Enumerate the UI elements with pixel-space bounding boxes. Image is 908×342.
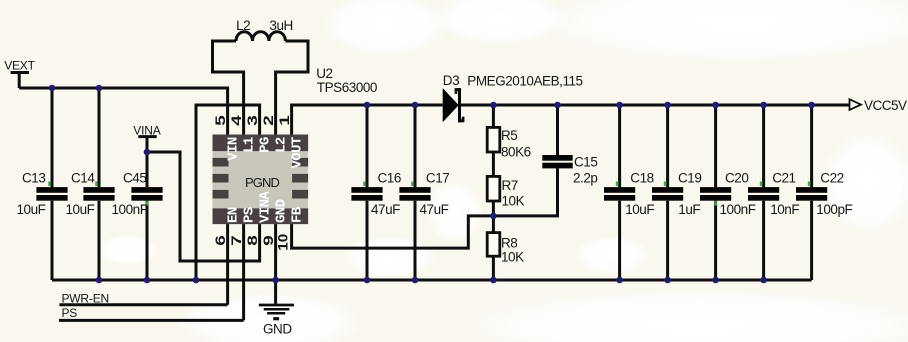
svg-text:1uF: 1uF (678, 202, 700, 217)
svg-text:C18: C18 (630, 170, 653, 185)
svg-text:R8: R8 (501, 236, 517, 251)
svg-text:VOUT: VOUT (289, 137, 305, 168)
svg-text:8: 8 (244, 235, 260, 246)
svg-text:TPS63000: TPS63000 (317, 80, 377, 95)
svg-text:9: 9 (260, 235, 276, 246)
svg-text:C15: C15 (574, 155, 597, 170)
svg-text:L2: L2 (273, 137, 289, 153)
svg-text:10uF: 10uF (17, 202, 46, 217)
svg-text:10uF: 10uF (625, 202, 654, 217)
svg-text:C16: C16 (378, 170, 401, 185)
svg-text:2.2p: 2.2p (573, 171, 597, 186)
svg-text:5: 5 (212, 115, 228, 126)
svg-text:3: 3 (244, 115, 260, 126)
svg-text:R5: R5 (501, 128, 517, 143)
svg-text:4: 4 (228, 114, 244, 125)
svg-text:47uF: 47uF (371, 202, 400, 217)
svg-text:10K: 10K (502, 194, 525, 209)
svg-text:2: 2 (260, 115, 276, 126)
svg-text:10nF: 10nF (770, 202, 799, 217)
svg-text:C22: C22 (820, 170, 843, 185)
svg-text:1: 1 (276, 115, 292, 126)
svg-text:C14: C14 (71, 170, 95, 185)
svg-text:10uF: 10uF (66, 202, 95, 217)
svg-text:VIN: VIN (225, 137, 241, 161)
svg-text:VCC5V: VCC5V (864, 98, 907, 113)
svg-text:GND: GND (273, 199, 289, 223)
svg-text:EN: EN (225, 207, 241, 223)
svg-text:PG: PG (257, 137, 273, 153)
svg-text:FB: FB (289, 206, 305, 223)
svg-text:PWR-EN: PWR-EN (62, 292, 109, 306)
svg-text:U2: U2 (316, 66, 332, 81)
svg-text:80K6: 80K6 (501, 145, 531, 160)
svg-text:6: 6 (212, 235, 228, 246)
svg-text:PGND: PGND (245, 175, 279, 190)
svg-text:7: 7 (228, 235, 244, 246)
svg-text:100nF: 100nF (720, 202, 756, 217)
svg-text:100pF: 100pF (816, 202, 852, 217)
svg-text:C13: C13 (22, 170, 45, 185)
svg-text:PMEG2010AEB,115: PMEG2010AEB,115 (467, 74, 582, 89)
svg-text:C45: C45 (123, 170, 146, 185)
svg-text:VEXT: VEXT (4, 59, 35, 73)
svg-text:GND: GND (263, 321, 292, 336)
svg-text:PS: PS (62, 306, 78, 320)
svg-text:C21: C21 (772, 170, 795, 185)
svg-text:10K: 10K (501, 250, 524, 265)
svg-text:10: 10 (276, 234, 291, 251)
svg-text:VINA: VINA (133, 124, 160, 138)
svg-text:100nF: 100nF (112, 202, 148, 217)
svg-text:C20: C20 (725, 170, 748, 185)
svg-text:VINA: VINA (257, 191, 273, 223)
svg-text:C19: C19 (678, 170, 701, 185)
svg-text:47uF: 47uF (420, 202, 449, 217)
svg-text:D3: D3 (443, 73, 459, 88)
svg-text:C17: C17 (426, 170, 449, 185)
svg-text:R7: R7 (502, 178, 518, 193)
svg-text:3uH: 3uH (269, 18, 292, 33)
svg-text:L2: L2 (236, 18, 250, 33)
svg-text:L1: L1 (241, 137, 257, 153)
svg-text:PS: PS (241, 207, 257, 223)
